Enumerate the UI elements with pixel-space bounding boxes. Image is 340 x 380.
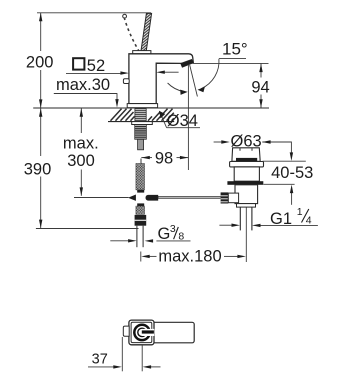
drain centerline extension (245, 208, 247, 263)
drain flange top ticks (239, 148, 241, 151)
svg-text:Ø34: Ø34 (167, 112, 198, 130)
top view left tab (123, 326, 129, 336)
dim 390 bottom extension line (36, 228, 139, 230)
lift rod stub (140, 159, 142, 165)
pop-up knob (knurled) (221, 192, 229, 203)
lever handle raised (hatched) (141, 13, 152, 50)
drain lip (230, 162, 264, 167)
dim diam63 line left (214, 141, 222, 143)
washer under deck (132, 122, 153, 125)
aerator (dark tilted slab) (181, 59, 194, 67)
svg-text:52: 52 (87, 57, 105, 75)
dim G1 1/4 underline + left arrowhead (260, 224, 318, 226)
svg-text:94: 94 (251, 79, 269, 97)
svg-text:3: 3 (170, 223, 176, 235)
dim max180 line + arrows (149, 255, 239, 257)
logo inner ring (138, 328, 146, 336)
lever dashed swing outline (124, 18, 138, 51)
drain upper body (234, 167, 259, 181)
pop-up rod left wedge (128, 195, 136, 201)
svg-text:37: 37 (92, 352, 108, 368)
dim 40-53 lower arrow (291, 193, 293, 205)
deck hatch left (111, 109, 135, 121)
top view extension line left (121, 337, 123, 371)
lever collar on body top (133, 51, 151, 54)
dim 200 line (40, 13, 42, 108)
drain plug dark band (236, 158, 257, 161)
logo bar (142, 330, 154, 333)
svg-text:15°: 15° (222, 40, 248, 59)
dim G1 1/4 opposing arrow (219, 224, 231, 226)
dim G3/8 opposing arrow (110, 240, 128, 242)
dim 98 line (141, 157, 188, 159)
angle arc right (from leader) (201, 59, 219, 89)
pop-up rod coupler bullet (146, 195, 159, 201)
drain tailpipe (239, 207, 241, 230)
deck bottom line (108, 121, 174, 123)
svg-text:max.180: max.180 (158, 247, 221, 265)
body left tab (123, 79, 129, 84)
pop-up horizontal rod (158, 196, 224, 198)
hose end collar lower (137, 203, 144, 206)
deck top line (33, 107, 269, 109)
svg-text:max.: max. (63, 134, 99, 152)
G3/8 nut (135, 215, 147, 226)
hose end collar upper (137, 190, 144, 193)
top view handle outer square (129, 320, 154, 345)
drain lower body (235, 185, 258, 204)
threaded block below washer (135, 125, 147, 140)
deck hatch right (148, 109, 174, 121)
drain bottom slab (237, 204, 256, 208)
svg-text:200: 200 (26, 54, 54, 72)
svg-text:300: 300 (67, 152, 95, 170)
dim 94 line (260, 64, 262, 108)
dim square52 label (73, 58, 84, 69)
drain seal ring (dark) (227, 181, 263, 185)
top extension line (lever max height) (37, 12, 151, 14)
dim G3/8 underline + left arrowhead (156, 240, 190, 242)
dim 94 top extension line (193, 62, 269, 64)
svg-text:390: 390 (24, 160, 52, 178)
logo bar slot (142, 329, 155, 336)
supply pipe tails (136, 226, 138, 248)
svg-text:40-53: 40-53 (271, 164, 313, 182)
dim diam63 line right + corner down (262, 142, 291, 153)
dim 390 line (40, 108, 42, 228)
dim max180 left tick (140, 252, 142, 262)
dim max30 down arrow (116, 94, 118, 100)
flexible hose upper (136, 164, 145, 190)
dim 52 mirrored arrow at body right edge (164, 71, 179, 73)
dim 40-53 upper reference line (263, 160, 306, 162)
flexible hose lower (136, 206, 145, 214)
shank through deck (threaded) (135, 108, 146, 121)
top view handle inner outline (131, 322, 152, 342)
svg-text:98: 98 (155, 150, 173, 168)
drain flange upper (232, 148, 260, 162)
TOP VIEW: spout rectangle (141, 322, 195, 343)
lever tip dashed curl (123, 14, 127, 18)
top view extension line center (141, 345, 143, 371)
faucet body outline (129, 54, 193, 104)
dim 37 line + arrows (88, 366, 161, 368)
spout vertical reference line (187, 65, 189, 171)
faucet base plate (127, 104, 157, 108)
dim max300 line (80, 108, 82, 196)
svg-text:1: 1 (297, 206, 303, 218)
svg-text:max.30: max.30 (56, 76, 110, 94)
angle arc left (168, 83, 184, 92)
nipple (138, 139, 144, 150)
svg-text:G: G (158, 225, 171, 243)
spout 15deg tilted line (190, 65, 198, 97)
dim max300 bottom extension line (74, 197, 129, 199)
svg-text:Ø63: Ø63 (231, 133, 262, 151)
pop-up housing (228, 193, 238, 203)
logo outer ring (134, 325, 149, 340)
dim 40-53 lower reference line (264, 183, 295, 185)
svg-text:4: 4 (306, 214, 312, 226)
